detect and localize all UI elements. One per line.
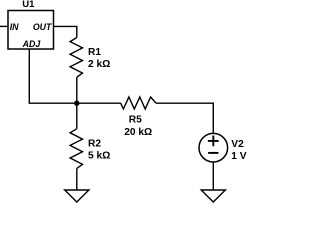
wire R2 bottom to ground — [76, 168, 78, 190]
svg-text:R1: R1 — [88, 47, 101, 58]
V2 minus sign — [208, 152, 218, 154]
svg-text:R5: R5 — [129, 114, 142, 125]
wire IN pin (left edge) — [0, 25, 8, 27]
wire R5 right to V2 top — [156, 103, 213, 133]
wire R1 bottom to node — [76, 77, 78, 103]
wire V2 bottom to ground — [212, 162, 214, 190]
regulator U1 body — [8, 11, 54, 50]
wire node to R5 left — [77, 102, 121, 104]
wire OUT pin to R1 top — [54, 26, 77, 37]
svg-text:R2: R2 — [88, 138, 101, 149]
svg-text:U1: U1 — [22, 0, 35, 10]
svg-text:1 V: 1 V — [231, 151, 246, 162]
resistor R2 — [70, 129, 82, 169]
V2 plus sign — [208, 136, 219, 147]
svg-text:OUT: OUT — [33, 22, 52, 32]
svg-text:20 kΩ: 20 kΩ — [124, 127, 152, 138]
wire node to R2 top — [76, 103, 78, 129]
node junction — [74, 101, 79, 106]
svg-text:ADJ: ADJ — [22, 39, 42, 49]
svg-text:2 kΩ: 2 kΩ — [88, 59, 110, 70]
resistor R1 — [70, 38, 82, 78]
voltage source V2 — [199, 133, 228, 162]
svg-text:IN: IN — [10, 22, 19, 32]
wire ADJ pin to node — [29, 49, 77, 103]
ground under V2 — [201, 190, 225, 202]
svg-text:5 kΩ: 5 kΩ — [88, 151, 110, 162]
resistor R5 — [121, 97, 156, 109]
svg-text:V2: V2 — [231, 139, 244, 150]
ground under R2 — [65, 190, 89, 202]
